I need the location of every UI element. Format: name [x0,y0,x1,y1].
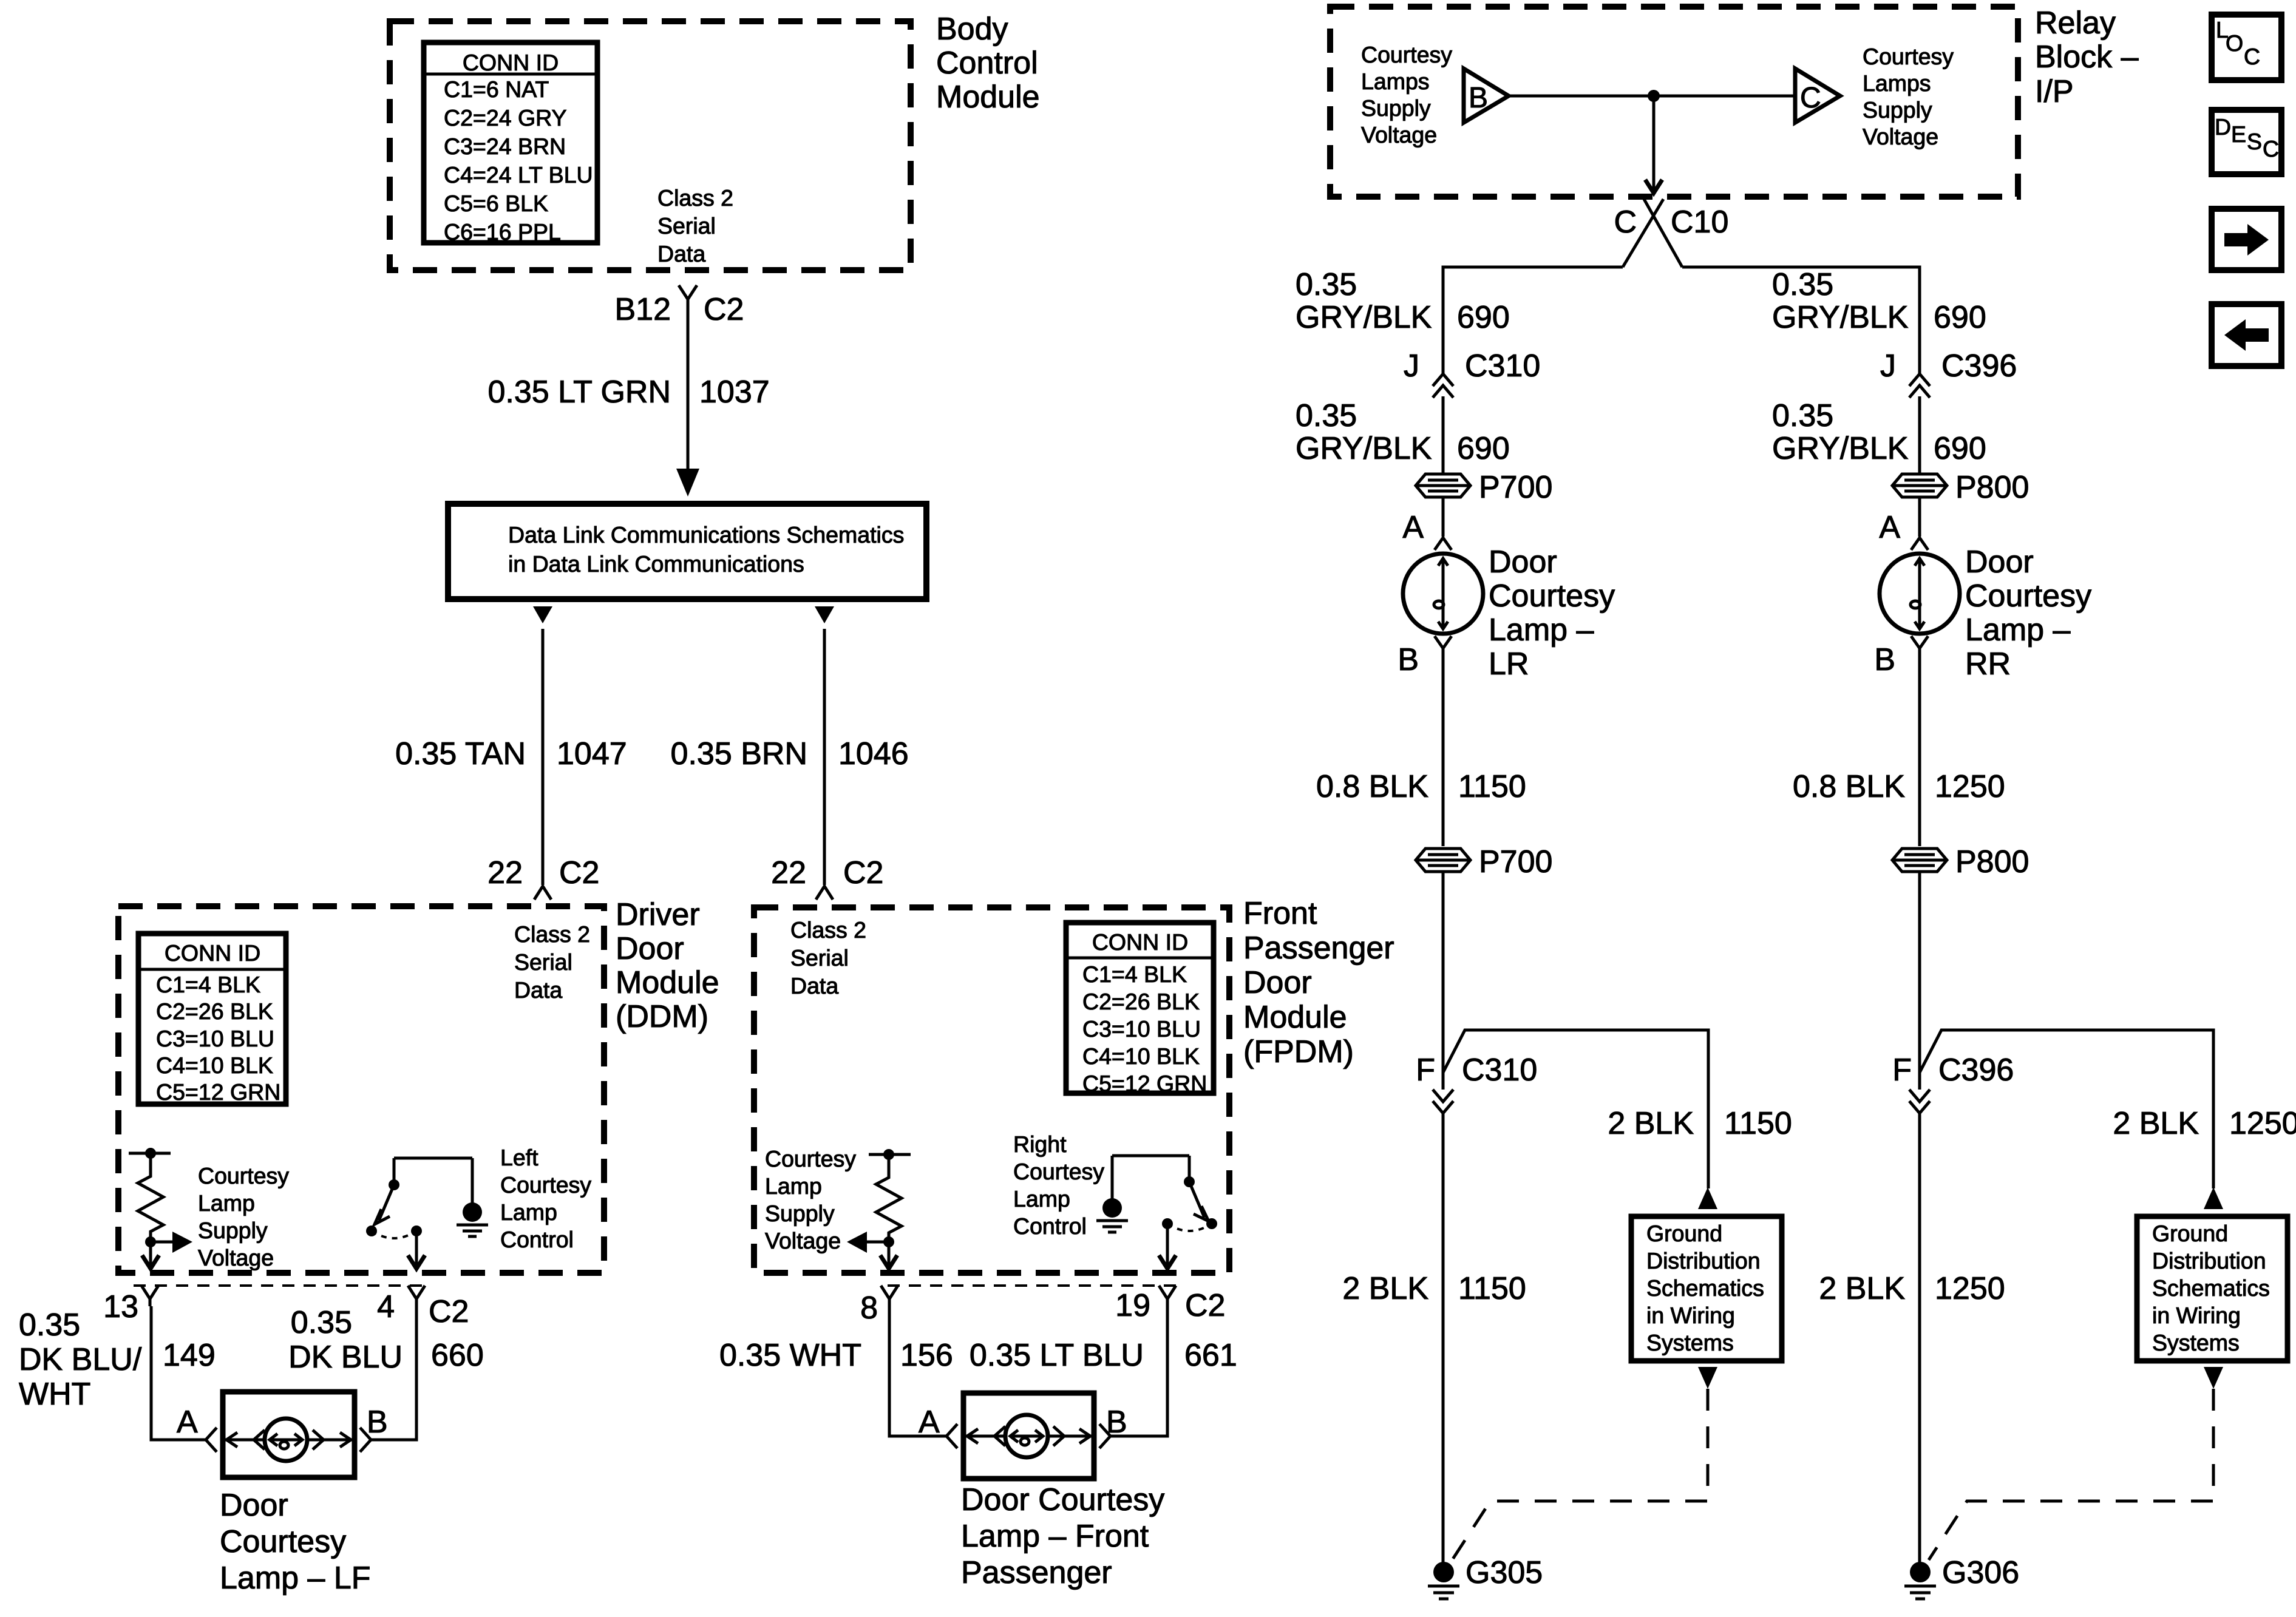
svg-text:Lamp –: Lamp – [1965,612,2071,648]
svg-text:1150: 1150 [1458,769,1526,804]
svg-text:in Wiring: in Wiring [1646,1303,1735,1328]
svg-text:Courtesy: Courtesy [1965,578,2091,614]
wire 156 from pin 8 to lamp A [889,1306,947,1436]
label Front Passenger Door Module (FPDM) [1243,896,1394,1070]
arrowhead out of ground distribution box (right) [2204,1367,2223,1389]
svg-text:0.35: 0.35 [19,1307,80,1343]
arrowhead into Data Link box [676,469,699,497]
svg-text:19: 19 [1115,1288,1150,1323]
pass-through grommet P800 [1892,474,1947,497]
svg-text:Voltage: Voltage [1863,124,1938,149]
wire label 0.35 DK BLU [288,1305,402,1375]
svg-text:690: 690 [1934,300,1986,335]
svg-text:Courtesy: Courtesy [1361,42,1452,67]
pass-through grommet P800 (lower) [1892,849,1947,872]
svg-text:Class 2: Class 2 [657,185,733,211]
svg-text:Body: Body [936,12,1008,47]
svg-text:Data: Data [790,973,838,998]
svg-text:0.35 LT BLU: 0.35 LT BLU [970,1338,1144,1373]
svg-text:in Wiring: in Wiring [2152,1303,2241,1328]
wire 149 from pin 13 to lamp A [151,1306,206,1440]
button forward arrow [2212,209,2281,270]
bulb Door Courtesy Lamp LR [1403,554,1483,634]
wire label 0.35 DK BLU/ WHT [19,1307,142,1412]
svg-text:A: A [1879,510,1900,545]
resistor courtesy lamp supply (DDM) [129,1148,171,1247]
wire junction down to relay block edge [1645,96,1662,193]
switch left courtesy lamp control (DDM) [366,1158,488,1269]
svg-text:Lamp: Lamp [1013,1186,1070,1212]
ground G305 [1428,1562,1459,1599]
svg-text:Module: Module [936,80,1040,115]
svg-text:C3=24 BRN: C3=24 BRN [444,134,566,159]
svg-text:C4=24 LT BLU: C4=24 LT BLU [444,162,593,188]
label Driver Door Module (DDM) [616,897,719,1034]
svg-text:Lamp –: Lamp – [1489,612,1594,648]
connector C2 body thin dashed line (FPDM bottom) [888,1284,1181,1287]
svg-text:I/P: I/P [2035,74,2074,109]
label Courtesy Lamps Supply Voltage (left) [1361,42,1452,147]
svg-text:Courtesy: Courtesy [1489,578,1615,614]
svg-text:GRY/BLK: GRY/BLK [1772,431,1909,466]
svg-text:G305: G305 [1466,1555,1543,1590]
fork pin 4 [408,1286,425,1306]
svg-text:13: 13 [103,1289,138,1324]
arrow left (supply voltage out, FPDM) [847,1232,889,1253]
branch to ground distribution (left) [1443,1030,1708,1188]
svg-text:22: 22 [771,855,806,890]
svg-text:Lamp: Lamp [765,1173,822,1199]
svg-text:C310: C310 [1462,1053,1537,1088]
bus wire right [1682,267,1920,374]
arrowhead below box (left) [533,606,552,623]
svg-text:G306: G306 [1942,1555,2019,1590]
svg-text:P700: P700 [1479,470,1552,505]
fork pin 8 [881,1286,898,1306]
svg-text:2 BLK: 2 BLK [1342,1271,1428,1306]
svg-text:Voltage: Voltage [198,1245,274,1270]
arrow right (supply voltage out) [151,1232,192,1253]
chevron at lamp B (FP) [1099,1424,1110,1448]
arrowhead into ground distribution box (left) [1698,1187,1717,1209]
svg-text:Module: Module [1243,1000,1347,1035]
svg-text:Relay: Relay [2035,5,2116,41]
in-line connector chevrons C396 [1909,374,1930,398]
label Class 2 Serial Data (DDM) [514,921,590,1003]
dashed route to G305 [1452,1389,1708,1560]
svg-text:0.35 TAN: 0.35 TAN [395,736,526,771]
svg-text:B: B [1874,642,1895,677]
svg-text:2 BLK: 2 BLK [1608,1106,1694,1141]
svg-text:C5=6 BLK: C5=6 BLK [444,191,548,216]
svg-text:Supply: Supply [1361,95,1431,121]
label Relay Block I/P [2035,5,2139,109]
wire B to C inside relay block [1509,95,1795,98]
pass-through grommet P700 [1416,474,1470,497]
svg-text:E: E [2231,121,2246,147]
svg-text:Voltage: Voltage [1361,122,1437,147]
svg-text:F: F [1892,1053,1912,1088]
svg-text:C: C [2263,136,2279,161]
svg-text:C1=4 BLK: C1=4 BLK [156,972,260,997]
module Relay Block I/P dashed box [1330,7,2018,197]
fork at lamp LR pin B [1435,636,1452,648]
lamp Door Courtesy Lamp LF box [223,1392,355,1477]
label Left Courtesy Lamp Control [500,1145,591,1252]
terminal triangle C [1795,69,1840,123]
arrowhead out of ground distribution box (left) [1698,1367,1717,1389]
module Driver Door Module dashed box [118,906,604,1273]
svg-text:DK BLU/: DK BLU/ [19,1342,142,1377]
fork pin 19 [1159,1286,1176,1306]
svg-text:0.35: 0.35 [1296,398,1357,433]
svg-text:Module: Module [616,965,719,1000]
svg-text:8: 8 [860,1290,878,1326]
svg-text:1250: 1250 [1935,1271,2005,1306]
svg-text:C2: C2 [704,292,744,327]
svg-text:C396: C396 [1941,348,2017,384]
svg-text:Distribution: Distribution [2152,1248,2266,1273]
svg-text:B: B [367,1405,388,1440]
svg-text:Block –: Block – [2035,39,2139,75]
lamp Door Courtesy Lamp Front Passenger box [963,1393,1094,1479]
svg-text:(DDM): (DDM) [616,999,708,1034]
label Door Courtesy Lamp Front Passenger [961,1482,1164,1590]
svg-text:Lamp – LF: Lamp – LF [220,1561,371,1596]
resistor courtesy lamp supply (FPDM) [869,1149,911,1247]
svg-text:J: J [1404,348,1419,384]
svg-text:A: A [919,1405,940,1440]
wire to FPDM [823,629,826,885]
svg-text:C5=12 GRN: C5=12 GRN [156,1079,280,1105]
svg-text:Schematics: Schematics [2152,1275,2270,1301]
wire P700 down to C310 [1442,872,1445,1090]
chevron at lamp A [206,1428,217,1452]
bus wire left [1443,267,1623,374]
svg-text:Serial: Serial [790,945,849,971]
connector C2 body thin dashed line (DDM bottom) [134,1284,425,1287]
label Courtesy Lamp Supply Voltage (DDM) [198,1163,289,1270]
svg-text:LR: LR [1489,646,1529,682]
BCM CONN ID table [424,42,597,245]
wire label 0.35 GRY/BLK (below C310) [1296,398,1432,466]
svg-text:0.35 WHT: 0.35 WHT [719,1338,861,1373]
svg-text:Systems: Systems [1646,1330,1734,1355]
svg-text:C2=26 BLK: C2=26 BLK [156,998,273,1024]
svg-text:C4=10 BLK: C4=10 BLK [156,1053,273,1078]
switch right courtesy lamp control (FPDM) [1096,1156,1217,1269]
arrowhead into ground distribution box (right) [2204,1187,2223,1209]
svg-text:1150: 1150 [1724,1106,1792,1141]
svg-text:CONN ID: CONN ID [1092,929,1188,955]
svg-text:Lamps: Lamps [1361,69,1430,94]
svg-text:Door: Door [1243,965,1312,1000]
svg-text:P700: P700 [1479,844,1552,880]
svg-text:C2: C2 [559,855,599,890]
branch to ground distribution (right) [1920,1030,2213,1188]
wire P700 to lamp A [1442,497,1445,537]
fork at lamp LR pin A [1435,538,1452,550]
wire lamp B down [1918,648,1921,846]
svg-text:B: B [1469,82,1488,114]
svg-text:0.35 BRN: 0.35 BRN [671,736,807,771]
svg-text:Systems: Systems [2152,1330,2240,1355]
wire P800 to lamp A [1918,497,1921,537]
svg-text:C1=4 BLK: C1=4 BLK [1082,961,1187,987]
label Class 2 Serial Data (FPDM) [790,917,866,998]
svg-text:Door: Door [1965,544,2034,580]
svg-text:P800: P800 [1955,470,2029,505]
svg-text:Data: Data [657,241,705,266]
svg-text:1150: 1150 [1458,1271,1526,1306]
svg-text:Schematics: Schematics [1646,1275,1764,1301]
svg-text:C3=10 BLU: C3=10 BLU [156,1026,274,1051]
label Body Control Module [936,12,1040,115]
arrowhead below box (right) [815,606,834,623]
svg-text:J: J [1880,348,1896,384]
wire C396 to G306 [1918,1113,1921,1562]
wire P800 down to C396 [1918,872,1921,1090]
svg-text:C1=6 NAT: C1=6 NAT [444,76,549,102]
svg-text:Front: Front [1243,896,1317,931]
wire C310 to G305 [1442,1113,1445,1562]
svg-text:CONN ID: CONN ID [165,940,260,966]
fork at lamp RR pin B [1911,636,1928,648]
svg-text:CONN ID: CONN ID [463,50,559,75]
svg-text:Right: Right [1013,1131,1067,1157]
svg-text:O: O [2226,30,2243,56]
svg-text:Ground: Ground [2152,1221,2228,1246]
svg-text:C5=12 GRN: C5=12 GRN [1082,1071,1207,1096]
wire below C396 [1918,396,1921,473]
wire below C310 [1442,396,1445,473]
svg-text:A: A [177,1405,198,1440]
box Ground Distribution Schematics (right) [2137,1216,2288,1361]
svg-text:Door: Door [1489,544,1557,580]
svg-text:A: A [1402,510,1424,545]
svg-text:B12: B12 [614,292,671,327]
FPDM CONN ID table [1066,923,1214,1096]
svg-text:690: 690 [1457,431,1510,466]
box Ground Distribution Schematics (left) [1631,1216,1782,1361]
svg-text:C2: C2 [429,1294,469,1329]
svg-text:B: B [1106,1405,1127,1440]
svg-text:in Data Link Communications: in Data Link Communications [508,551,804,577]
connector crossover C / C10 [1623,199,1682,267]
svg-text:Data: Data [514,977,562,1003]
arrow down to module edge (pin 8) [880,1242,897,1269]
svg-text:Courtesy: Courtesy [220,1524,346,1559]
label Door Courtesy Lamp RR [1965,544,2091,682]
button back arrow [2212,304,2281,366]
wire 661 from pin 19 to lamp B [1110,1306,1167,1436]
svg-text:690: 690 [1457,300,1510,335]
svg-text:Data Link Communications Schem: Data Link Communications Schematics [508,522,904,547]
label Door Courtesy Lamp LR [1489,544,1615,682]
connector fork at FPDM top [816,886,833,900]
chevron at lamp B [360,1428,371,1452]
svg-text:1250: 1250 [1935,769,2005,804]
svg-text:Passenger: Passenger [961,1555,1112,1590]
svg-text:Lamps: Lamps [1863,70,1931,96]
wire BCM to Data Link box [687,307,690,470]
svg-text:Courtesy: Courtesy [500,1172,591,1198]
label Courtesy Lamps Supply Voltage (right) [1863,44,1954,149]
svg-text:DK BLU: DK BLU [288,1340,402,1375]
wire 660 from pin 4 to lamp B [370,1306,416,1440]
svg-text:1046: 1046 [838,736,909,771]
module Body Control Module dashed box [390,21,911,270]
svg-text:661: 661 [1184,1338,1237,1373]
svg-text:0.8 BLK: 0.8 BLK [1316,769,1428,804]
box Data Link Communications Schematics [448,504,926,599]
svg-text:F: F [1416,1053,1435,1088]
svg-text:Driver: Driver [616,897,700,932]
svg-text:660: 660 [431,1338,484,1373]
svg-text:Control: Control [936,46,1038,81]
svg-text:C2=26 BLK: C2=26 BLK [1082,989,1200,1014]
svg-text:4: 4 [377,1289,395,1324]
svg-text:Courtesy: Courtesy [1863,44,1954,69]
svg-text:Voltage: Voltage [765,1228,841,1253]
svg-text:GRY/BLK: GRY/BLK [1296,431,1432,466]
label Door Courtesy Lamp LF [220,1488,371,1596]
svg-text:Control: Control [500,1227,574,1252]
svg-text:Passenger: Passenger [1243,931,1394,966]
DDM CONN ID table [138,934,286,1105]
ground G306 [1904,1562,1936,1599]
dashed route to G306 [1929,1389,2213,1560]
svg-text:1250: 1250 [2229,1106,2296,1141]
svg-text:1037: 1037 [699,375,770,410]
label Class 2 Serial Data (BCM) [657,185,733,266]
junction node [1648,90,1660,102]
svg-text:156: 156 [900,1338,953,1373]
connector fork at DDM top [534,886,551,900]
svg-text:C3=10 BLU: C3=10 BLU [1082,1016,1201,1042]
svg-text:0.35: 0.35 [1772,267,1833,302]
button LOC [2212,15,2281,80]
fork at lamp RR pin A [1911,538,1928,550]
svg-text:(FPDM): (FPDM) [1243,1034,1354,1070]
svg-text:C2: C2 [843,855,883,890]
svg-text:2 BLK: 2 BLK [2113,1106,2199,1141]
svg-text:0.8 BLK: 0.8 BLK [1793,769,1905,804]
svg-text:C310: C310 [1465,348,1540,384]
connector fork B12 C2 at BCM [679,285,697,307]
svg-text:Lamp: Lamp [198,1190,255,1216]
svg-text:C396: C396 [1938,1053,2014,1088]
svg-text:Ground: Ground [1646,1221,1722,1246]
svg-text:Door: Door [616,931,684,966]
svg-text:Serial: Serial [514,949,572,975]
wire to DDM [542,629,545,885]
svg-text:B: B [1398,642,1419,677]
svg-text:C: C [2244,44,2260,69]
svg-text:Door: Door [220,1488,288,1523]
svg-text:P800: P800 [1955,844,2029,880]
svg-text:C: C [1800,82,1821,114]
svg-text:Class 2: Class 2 [790,917,866,943]
svg-text:WHT: WHT [19,1377,90,1412]
in-line connector chevrons C310 [1433,374,1453,398]
svg-text:C6=16 PPL: C6=16 PPL [444,219,561,245]
svg-text:RR: RR [1965,646,2011,682]
in-line connector chevrons C396 (lower) [1909,1090,1930,1113]
button DESC [2212,110,2281,174]
svg-text:GRY/BLK: GRY/BLK [1772,300,1909,335]
svg-text:C4=10 BLK: C4=10 BLK [1082,1043,1200,1069]
pass-through grommet P700 (lower) [1416,849,1470,872]
svg-text:Serial: Serial [657,213,716,239]
svg-text:C2: C2 [1185,1288,1225,1323]
label Right Courtesy Lamp Control [1013,1131,1104,1239]
svg-text:Lamp – Front: Lamp – Front [961,1519,1149,1554]
svg-text:2 BLK: 2 BLK [1819,1271,1905,1306]
svg-text:690: 690 [1934,431,1986,466]
svg-text:Courtesy: Courtesy [1013,1159,1104,1184]
svg-text:S: S [2247,129,2262,154]
svg-text:Left: Left [500,1145,538,1170]
wire label 0.35 GRY/BLK (above C310) [1296,267,1432,335]
svg-text:0.35: 0.35 [291,1305,352,1340]
wire lamp B down [1442,648,1445,846]
label Courtesy Lamp Supply Voltage (FPDM) [765,1146,856,1253]
bulb Door Courtesy Lamp RR [1880,554,1960,634]
terminal triangle B [1464,69,1509,123]
module Front Passenger Door Module dashed box [754,907,1229,1273]
arrow down to module edge (pin 13) [142,1242,159,1269]
svg-text:Supply: Supply [765,1201,835,1226]
fork pin 13 [141,1286,158,1306]
svg-text:Door Courtesy: Door Courtesy [961,1482,1164,1517]
svg-text:C10: C10 [1671,205,1728,240]
svg-text:0.35 LT GRN: 0.35 LT GRN [487,375,671,410]
svg-text:Courtesy: Courtesy [198,1163,289,1188]
svg-text:C: C [1614,205,1637,240]
svg-text:D: D [2215,114,2231,140]
svg-text:GRY/BLK: GRY/BLK [1296,300,1432,335]
in-line connector chevrons C310 (lower) [1433,1090,1453,1113]
svg-text:Distribution: Distribution [1646,1248,1761,1273]
svg-text:Lamp: Lamp [500,1199,557,1225]
svg-text:Control: Control [1013,1213,1087,1239]
svg-text:Courtesy: Courtesy [765,1146,856,1171]
svg-text:22: 22 [487,855,523,890]
svg-text:149: 149 [163,1338,216,1373]
svg-text:Class 2: Class 2 [514,921,590,947]
chevron at lamp A (FP) [946,1424,957,1448]
svg-text:C2=24 GRY: C2=24 GRY [444,105,567,131]
wire label 0.35 GRY/BLK (above C396) [1772,267,1909,335]
svg-text:Supply: Supply [1863,97,1932,123]
svg-text:0.35: 0.35 [1772,398,1833,433]
svg-text:1047: 1047 [557,736,627,771]
svg-text:Supply: Supply [198,1218,268,1243]
svg-text:0.35: 0.35 [1296,267,1357,302]
wire label 0.35 GRY/BLK (below C396) [1772,398,1909,466]
